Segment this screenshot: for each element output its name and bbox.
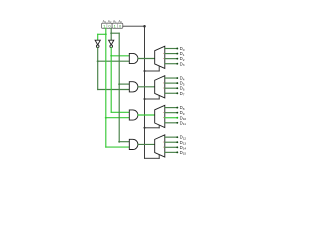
wire output D13 [165, 141, 178, 143]
svg-text:D7: D7 [180, 91, 185, 97]
node A2 junction [110, 32, 112, 34]
wire A3 jog to inverter [98, 33, 106, 35]
node D3 wire end [176, 63, 178, 65]
node D11 wire end [176, 122, 178, 124]
inverter U2 (inverts A2) [109, 40, 114, 47]
wire A2 to AND4 top input [119, 141, 129, 143]
wire select bus vertical [144, 26, 146, 158]
wire ~A2 to AND1 top input [111, 55, 129, 57]
wire A3 to AND3 bottom input [106, 117, 130, 119]
wire select stub vertical decoder 1 [158, 66, 160, 71]
node D4 wire end [176, 77, 178, 79]
svg-text:D11: D11 [180, 120, 187, 126]
wire output D9 [165, 112, 178, 114]
wire A3 drop from pin [105, 28, 107, 34]
wire A2 to AND2 top input [119, 83, 129, 85]
svg-text:D3: D3 [180, 61, 185, 67]
node ~A3 junction [97, 60, 99, 62]
decoder DEC2 (2-to-4) [155, 76, 165, 98]
wire AND G2 output to decoder 2 enable [138, 86, 155, 88]
node A2 rail corner dot [118, 141, 120, 143]
decoder DEC4 (2-to-4) [155, 135, 165, 157]
node D0 wire end [176, 48, 178, 50]
wire output D7 [165, 92, 178, 94]
node bus junction 1 [143, 70, 145, 72]
svg-text:D15: D15 [180, 150, 187, 156]
inverter U1 (inverts A3) [95, 40, 100, 47]
node ~A2 junction [110, 55, 112, 57]
node D15 wire end [176, 151, 178, 153]
node D6 wire end [176, 87, 178, 89]
wire select stub vertical decoder 2 [158, 95, 160, 99]
node D7 wire end [176, 92, 178, 94]
node bus junction 2 [143, 98, 145, 100]
wire A3 into inverter U1 [97, 34, 99, 40]
AND gate G1 [129, 53, 138, 63]
svg-text:A0: A0 [118, 20, 122, 25]
wire output D6 [165, 87, 178, 89]
wire select stub horizontal decoder 3 [145, 127, 160, 129]
pin labels A3 A2 A1 A0 [102, 20, 122, 25]
wire ~A2 to AND3 top input [111, 111, 129, 113]
svg-text:A1: A1 [113, 20, 117, 25]
AND gate G4 [129, 139, 138, 149]
wire select bus horizontal from pins [123, 25, 145, 27]
wire output D14 [165, 146, 178, 148]
AND gate G3 [129, 110, 138, 120]
node D13 wire end [176, 141, 178, 143]
AND gate G2 [129, 82, 138, 92]
node D2 wire end [176, 58, 178, 60]
wire A2 rail [118, 33, 120, 142]
node D1 wire end [176, 53, 178, 55]
wire output D12 [165, 136, 178, 138]
wire AND G1 output to decoder 1 enable [138, 58, 155, 60]
decoder DEC3 (2-to-4) [155, 105, 165, 127]
decoder DEC1 (2-to-4) [155, 46, 165, 68]
wire select stub vertical decoder 4 [158, 154, 160, 158]
wire output D11 [165, 122, 178, 124]
wire A2 drop from pin to inverter U2 [110, 28, 112, 40]
node D10 wire end [176, 117, 178, 119]
wire select stub horizontal decoder 1 [145, 70, 160, 72]
node D8 wire end [176, 107, 178, 109]
wire output D0 [165, 48, 178, 50]
wire output D4 [165, 77, 178, 79]
svg-text:A2: A2 [108, 20, 112, 25]
wire ~A3 to AND1 bottom input [98, 60, 130, 62]
wire output D10 [165, 117, 178, 119]
node D5 wire end [176, 82, 178, 84]
wire AND G3 output to decoder 3 enable [138, 114, 155, 116]
wire output D15 [165, 151, 178, 153]
wire A3 to AND4 bottom input [106, 146, 130, 148]
wire output D3 [165, 63, 178, 65]
wire output D2 [165, 58, 178, 60]
wire ~A2 rail [110, 48, 112, 113]
wire select stub horizontal decoder 2 [145, 98, 160, 100]
wire output D8 [165, 107, 178, 109]
node D9 wire end [176, 112, 178, 114]
input pins A3 A2 A1 A0 (values 1 0 1 0) [102, 23, 123, 28]
node bus junction 3 [143, 127, 145, 129]
wire A3 rail [105, 34, 107, 147]
node bus corner junction [143, 25, 146, 28]
wire A2 jog right [111, 32, 119, 34]
node A3 junction [105, 33, 107, 35]
svg-text:A3: A3 [102, 20, 106, 25]
node A3 rail junction [105, 117, 107, 119]
wire select stub vertical decoder 3 [158, 125, 160, 128]
wire select stub horizontal decoder 4 [145, 157, 160, 159]
node D14 wire end [176, 146, 178, 148]
wire ~A3 rail [97, 48, 99, 90]
wire output D5 [165, 82, 178, 84]
wire ~A3 to AND2 bottom input [98, 89, 130, 91]
node A2 rail junction [118, 83, 120, 85]
wire AND G4 output to decoder 4 enable [138, 143, 155, 145]
wire output D1 [165, 53, 178, 55]
node D12 wire end [176, 136, 178, 138]
